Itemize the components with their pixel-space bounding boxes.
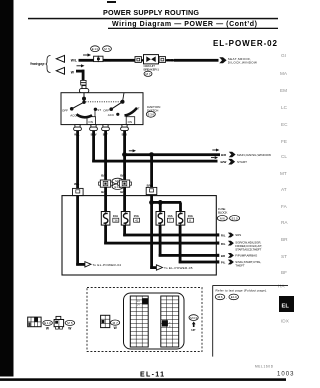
svg-text:AT: AT	[281, 187, 287, 192]
connector refs M6 E10 stacked	[112, 178, 123, 189]
svg-text:B/W: B/W	[147, 183, 153, 187]
svg-text:R/L: R/L	[221, 242, 226, 246]
svg-text:RA: RA	[281, 220, 288, 225]
svg-text:FE: FE	[281, 139, 287, 144]
svg-text:E10: E10	[44, 321, 51, 325]
svg-text:B/Y: B/Y	[101, 173, 106, 177]
fuse block face ref M33	[189, 315, 198, 321]
svg-text:BREAKER-1: BREAKER-1	[144, 68, 160, 72]
svg-text:M33: M33	[190, 316, 197, 320]
fuse block face view rounded box	[124, 293, 185, 349]
svg-text:M5: M5	[67, 321, 73, 325]
svg-text:BF: BF	[281, 270, 287, 275]
footer	[140, 365, 294, 379]
note box	[213, 285, 288, 356]
fuse D 10A	[176, 212, 185, 226]
svg-text:M6: M6	[218, 295, 223, 299]
ignition switch bottom terminal 2	[90, 125, 98, 131]
connector M5 ref oval	[65, 320, 75, 330]
page scan edges (decorative)	[0, 0, 14, 377]
label S/SIG,START,CTRL,THEFT	[235, 260, 261, 267]
ignition switch box	[61, 93, 143, 125]
svg-text:GI: GI	[281, 53, 286, 58]
wire B/Y vertical from terminal 3	[104, 131, 107, 180]
page arrow to SEAT,SROOF	[219, 57, 226, 63]
fuse ref 36	[113, 218, 119, 222]
junction dot bus to fuse C	[158, 200, 163, 205]
fuse block grid E10	[161, 296, 179, 347]
connector layout dashed box	[87, 288, 202, 352]
connector B/W into fuse block	[146, 187, 157, 194]
connector W/L into fuse block	[73, 188, 84, 195]
label IGNITION SWITCH	[147, 105, 161, 112]
fuse block box	[62, 196, 216, 275]
svg-text:E10: E10	[92, 47, 99, 51]
svg-text:E36: E36	[148, 113, 155, 117]
page arrow SRS	[228, 233, 234, 238]
svg-text:M7: M7	[113, 321, 119, 325]
fuse A output wire to SGR feed	[104, 225, 107, 244]
fuse block edge terminal SGR feed	[216, 242, 219, 245]
note ref M6	[215, 294, 227, 300]
svg-text:W: W	[46, 326, 50, 330]
svg-text:W/L: W/L	[71, 58, 77, 62]
svg-text:B/W: B/W	[221, 160, 227, 164]
wire B/W bus inside fuse block	[150, 195, 153, 269]
ignition switch internals right bank	[103, 93, 140, 125]
svg-text:ST: ST	[281, 254, 287, 259]
page arrow F/PUMP	[228, 253, 234, 258]
svg-text:36: 36	[114, 219, 118, 223]
page arrow to MAIN	[229, 152, 236, 158]
inline connector on wire W	[81, 80, 86, 85]
svg-text:ST: ST	[97, 108, 101, 112]
svg-text:M5: M5	[104, 47, 110, 51]
ignition switch bottom terminal 1	[74, 125, 82, 131]
wire W/B horizontal	[174, 59, 219, 62]
circuit breaker left terminal	[135, 57, 141, 63]
dotted link between switch banks	[86, 101, 122, 103]
fuse block refs M6 E10	[217, 216, 239, 221]
page arrow To EL-POWER-05	[156, 265, 162, 270]
svg-text:START: START	[237, 160, 247, 164]
label SGR/CW destinations	[235, 241, 262, 252]
direction arrow near MAIN wire end	[212, 149, 219, 152]
fuse block edge terminal F/PUMP	[216, 254, 219, 257]
svg-text:P/L: P/L	[221, 261, 226, 265]
fuse D output wire to S/SIG feed	[179, 225, 182, 263]
wire through circuit breaker	[134, 59, 175, 61]
fuse block edge terminal SRS	[216, 233, 219, 236]
svg-text:F/PUMP,AIRBAG: F/PUMP,AIRBAG	[235, 254, 258, 258]
svg-text:W: W	[68, 326, 72, 330]
label CIRCUIT BREAKER-1	[144, 64, 160, 71]
svg-text:D/LOCK,WINDOW: D/LOCK,WINDOW	[228, 60, 257, 64]
bus drop to fuse C	[159, 202, 162, 212]
svg-text:E10: E10	[232, 216, 238, 220]
wire B/W from terminal 2 down then right to START	[92, 131, 95, 163]
bus drop to fuse D	[179, 202, 182, 212]
svg-text:M7: M7	[146, 72, 151, 76]
fuse block edge terminal S/SIG	[216, 260, 219, 263]
svg-text:ACC: ACC	[108, 113, 115, 117]
circuit breaker CIRCUIT BREAKER-1 body	[144, 55, 159, 64]
svg-text:B/R: B/R	[120, 173, 126, 177]
page arrow S/SIG	[228, 260, 234, 265]
circuit breaker right terminal	[159, 57, 165, 63]
wire B/Y to fuse A	[104, 187, 107, 211]
svg-text:CL: CL	[281, 154, 287, 159]
svg-text:ON: ON	[128, 120, 133, 124]
svg-text:R/L: R/L	[221, 234, 226, 238]
svg-text:ST: ST	[136, 107, 140, 111]
svg-text:Wiring Diagram — POWER — (Cont: Wiring Diagram — POWER — (Cont’d)	[112, 21, 257, 28]
ignition switch bottom terminal 4	[121, 125, 129, 131]
connector M5 face view	[54, 316, 64, 329]
wire W/L vertical from terminal 1	[76, 131, 79, 189]
fuse B 15A	[121, 212, 130, 226]
fuse C output wire to F/PUMP feed	[159, 225, 162, 257]
svg-text:1003: 1003	[277, 372, 294, 378]
svg-text:W/B: W/B	[167, 58, 174, 62]
fuse ref 7	[167, 218, 173, 222]
svg-text:MEL160D: MEL160D	[255, 365, 274, 369]
svg-text:Preceding page: Preceding page	[30, 62, 45, 66]
svg-text:IDX: IDX	[281, 319, 290, 324]
fuse C 10A	[156, 212, 165, 226]
svg-text:ON: ON	[88, 120, 93, 124]
svg-text:BR: BR	[281, 237, 288, 242]
ignition switch top terminal	[79, 86, 88, 93]
direction arrow	[83, 53, 91, 56]
label FUSE BLOCK	[218, 207, 228, 215]
junction dot feeding fuse block B/W drop	[149, 152, 154, 157]
svg-text:EL-POWER-02: EL-POWER-02	[213, 39, 278, 48]
direction arrow near START wire end	[211, 156, 218, 159]
orientation arrow UP	[191, 322, 195, 332]
svg-text:OFF: OFF	[103, 109, 109, 113]
svg-text:EL: EL	[282, 304, 290, 310]
svg-text:POWER SUPPLY ROUTING: POWER SUPPLY ROUTING	[103, 8, 199, 17]
direction arrow on MAIN wire	[129, 149, 136, 152]
fuse block grid M6	[130, 296, 148, 347]
svg-text:W: W	[114, 326, 118, 330]
fuse ref 8	[188, 218, 194, 222]
fuse B output wire to SRS feed	[123, 225, 126, 236]
page arrow To EL-POWER-04	[85, 262, 91, 267]
connector M7 face view	[101, 315, 110, 327]
highlighted fuse cells grid E10	[162, 320, 168, 326]
inline connector on B/R	[118, 180, 132, 187]
svg-text:UP: UP	[191, 328, 195, 332]
wire W horizontal then down	[76, 70, 84, 73]
wire B/R branch horizontal to MAIN	[123, 153, 220, 156]
inline connector E10-M5	[94, 56, 103, 61]
label SEAT,SROOF,D/LOCK,WINDOW	[228, 57, 257, 65]
svg-text:OFF: OFF	[62, 109, 68, 113]
connector ref E36	[146, 111, 155, 117]
wire W/L horizontal	[79, 59, 137, 62]
svg-text:THEFT: THEFT	[235, 264, 245, 268]
svg-text:BLOCK: BLOCK	[218, 210, 228, 214]
inline connector on B/Y	[99, 180, 113, 187]
svg-text:W/L: W/L	[74, 182, 80, 186]
note ref E10	[229, 294, 239, 300]
svg-text:-: -	[228, 216, 229, 220]
svg-text:,: ,	[226, 295, 227, 299]
svg-text:START,ASCD,THEFT: START,ASCD,THEFT	[235, 247, 261, 251]
junction dot B/W at bus start	[149, 200, 154, 205]
connector M7 ref oval	[111, 320, 120, 330]
junction dot on B/R	[122, 152, 127, 157]
fuse ref 41	[134, 218, 140, 222]
wire W continue	[82, 85, 85, 87]
wire B/R vertical from terminal 4	[123, 131, 126, 180]
svg-text:SRS: SRS	[235, 233, 241, 237]
page arrow W/L from preceding page	[56, 55, 64, 62]
connector ref E10	[91, 46, 100, 52]
svg-text:FA: FA	[281, 204, 288, 209]
direction arrow	[77, 64, 85, 67]
wire color labels under terminals	[74, 133, 127, 137]
margin section tabs	[278, 53, 288, 289]
page arrow W from preceding page	[56, 67, 64, 74]
highlighted fuse cells grid M6	[142, 298, 148, 304]
connector E10 ref oval	[43, 320, 53, 330]
svg-text:EL-11: EL-11	[140, 372, 164, 379]
svg-text:EM: EM	[280, 88, 287, 93]
svg-text:W/L: W/L	[105, 58, 111, 62]
svg-text:EC: EC	[281, 122, 288, 127]
svg-text:MT: MT	[280, 171, 287, 176]
svg-text:Refer to last page (Foldout pa: Refer to last page (Foldout page).	[216, 289, 268, 293]
svg-text:To EL-POWER-05: To EL-POWER-05	[164, 266, 193, 270]
wire drop to fuse block from junction	[150, 155, 153, 188]
connector ref M7	[144, 71, 152, 76]
wire B/R to fuse B	[123, 187, 126, 211]
header title	[28, 8, 278, 48]
preceding page label	[30, 56, 51, 73]
page arrow to START	[228, 159, 235, 165]
svg-text:MAIN,IGN/SG,WINDOW: MAIN,IGN/SG,WINDOW	[237, 153, 271, 157]
svg-text:LC: LC	[281, 105, 288, 110]
connector E10 face view	[28, 317, 41, 327]
ignition switch internals left bank	[62, 93, 101, 125]
svg-text:M6: M6	[220, 216, 225, 220]
page arrow SGR	[228, 241, 234, 246]
svg-text:W: W	[71, 70, 75, 74]
wire B/W bottom corner to page arrow	[150, 266, 156, 269]
svg-text:To EL-POWER-04: To EL-POWER-04	[93, 263, 122, 267]
svg-text:B/R: B/R	[221, 153, 227, 157]
svg-text:BR: BR	[221, 254, 226, 258]
connector ref M5	[103, 46, 112, 52]
svg-text:HA: HA	[278, 284, 285, 289]
wire W/L inside fuse block down to page arrow	[76, 196, 79, 266]
svg-text:41: 41	[135, 219, 139, 223]
svg-text:E10: E10	[231, 295, 237, 299]
fuse A 10A	[101, 212, 110, 226]
svg-text:MA: MA	[280, 71, 288, 76]
ignition switch bottom terminal 3	[102, 125, 110, 131]
EL tab (current section)	[279, 296, 294, 324]
